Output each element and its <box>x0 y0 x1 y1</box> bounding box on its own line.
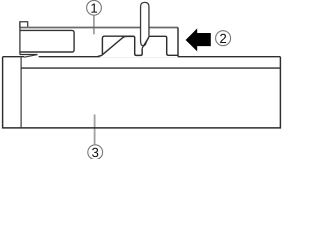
ramp step vertical and upper ledge <box>102 36 133 54</box>
callout circle 3 <box>88 145 103 160</box>
callout circle 2 <box>216 31 231 46</box>
housing top surface left segment <box>3 56 25 58</box>
slider top edge <box>20 27 178 29</box>
leader line 3 <box>94 115 96 145</box>
arrow (push direction) <box>186 28 211 51</box>
slider inner window (rounded rect) <box>20 30 74 52</box>
slider white silhouette (hides housing top under slider front) <box>100 44 178 57</box>
bar right of pin, right leg, slider right edge <box>149 28 178 56</box>
pin (actuator) <box>141 2 149 45</box>
housing outer body (left, bottom, right edges) <box>3 57 281 128</box>
slider bottom ledge line <box>20 54 38 56</box>
pin slot left wall and foot <box>133 36 142 55</box>
housing inner cavity line <box>21 67 280 69</box>
pin taper diagonal <box>142 37 149 48</box>
callout circle 1 <box>87 0 102 15</box>
leader line 1 <box>93 8 95 34</box>
slider tab <box>20 22 28 28</box>
ramp diagonal <box>98 36 134 56</box>
housing inner wall chamfer <box>24 55 37 58</box>
right leg seat on housing <box>177 55 179 56</box>
slider left edge <box>19 22 21 55</box>
housing inner wall vertical <box>20 57 22 127</box>
housing top surface main segment <box>39 56 281 58</box>
